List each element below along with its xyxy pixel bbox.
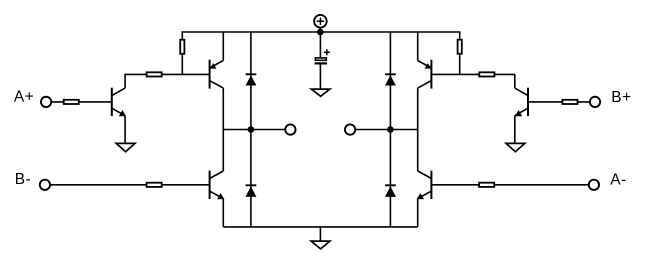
terminal A-	[589, 180, 599, 190]
capacitor C1 (polarized, + plate top)	[315, 49, 330, 63]
wire: Q6 collector up to right output node	[417, 130, 419, 172]
wire: Q5 collector down to right output node	[417, 88, 419, 129]
wire: C1 bottom to ground	[319, 65, 321, 90]
terminal OUT left	[285, 124, 295, 134]
wire: A- terminal to Q6 base	[431, 184, 588, 186]
wire: Q5 emitter to rail	[417, 32, 419, 61]
wire: Q3 emitter to rail	[222, 32, 224, 61]
wire: Q4 collector up to left output node	[222, 130, 224, 172]
junction dot on rail at power node	[317, 29, 324, 36]
wire: top V+ rail	[182, 32, 459, 39]
svg-text:B-: B-	[15, 171, 32, 188]
transistor Q3 (PNP, left high-side)	[210, 60, 224, 89]
wire: Q5 base to right driver node	[431, 73, 514, 75]
resistor R8 (right driver base)	[479, 72, 494, 76]
ground (center bottom)	[311, 241, 330, 249]
resistor R3 (B- input)	[147, 183, 162, 187]
resistor R7 (left driver base)	[147, 72, 162, 76]
diode D3 (right upper freewheel)	[385, 32, 396, 130]
resistor R4 (A- input)	[479, 183, 494, 187]
terminal A+	[41, 97, 51, 107]
wire: bottom rail to center ground	[319, 227, 321, 241]
ground (Q2 emitter)	[506, 143, 525, 151]
wire: left output node to terminal	[223, 129, 285, 131]
wire: R6 bottom to right driver base node	[459, 55, 461, 75]
terminal B+	[590, 97, 600, 107]
transistor Q2 (NPN, B+ input)	[515, 88, 528, 117]
transistor Q5 (PNP, right high-side)	[418, 60, 432, 89]
transistor Q1 (NPN, A+ input)	[112, 88, 126, 117]
resistor R6 (right collector load, vertical)	[458, 40, 462, 54]
wire: Q1 collector up to driver line	[125, 74, 210, 88]
junction dot at left output node	[248, 126, 255, 133]
svg-text:B+: B+	[611, 89, 631, 106]
wire: Q6 emitter down to bottom rail	[417, 199, 419, 227]
diode D2 (left lower freewheel)	[246, 130, 257, 227]
wire: Q2 emitter down to ground	[514, 116, 516, 144]
node +V: power supply symbol	[314, 15, 327, 28]
terminal B-	[40, 180, 50, 190]
wire: A+ terminal to Q1 base	[51, 101, 112, 103]
terminal OUT right	[345, 124, 355, 134]
resistor R2 (B+ input)	[562, 100, 577, 104]
wire: Q2 collector up to right driver line	[514, 74, 516, 88]
wire: Q1 emitter down to ground	[124, 116, 126, 144]
wire: rail down to capacitor C1	[319, 32, 321, 57]
wire: power symbol to rail	[319, 27, 321, 32]
diode D1 (left upper freewheel)	[246, 32, 257, 130]
wire: bottom ground rail	[223, 226, 417, 228]
ground (under C1)	[311, 89, 330, 96]
wire: R5 bottom to left driver base node	[181, 55, 183, 75]
transistor Q6 (NPN, right low-side)	[417, 171, 432, 200]
resistor R5 (left collector load, vertical)	[180, 40, 184, 54]
transistor Q4 (NPN, left low-side)	[210, 171, 225, 200]
wire: Q4 emitter down to bottom rail	[222, 199, 224, 227]
svg-text:A-: A-	[610, 172, 627, 189]
wire: Q3 collector down to left output node	[222, 88, 224, 129]
wire: right output node to terminal	[355, 129, 417, 131]
resistor R1 (A+ input)	[64, 100, 79, 104]
wire: B- terminal to Q4 base	[50, 184, 210, 186]
diode D4 (right lower freewheel)	[385, 130, 396, 227]
svg-text:A+: A+	[14, 88, 34, 105]
ground (Q1 emitter)	[116, 143, 135, 151]
wire: B+ terminal to Q2 base	[528, 101, 590, 103]
junction dot at right output node	[387, 126, 394, 133]
